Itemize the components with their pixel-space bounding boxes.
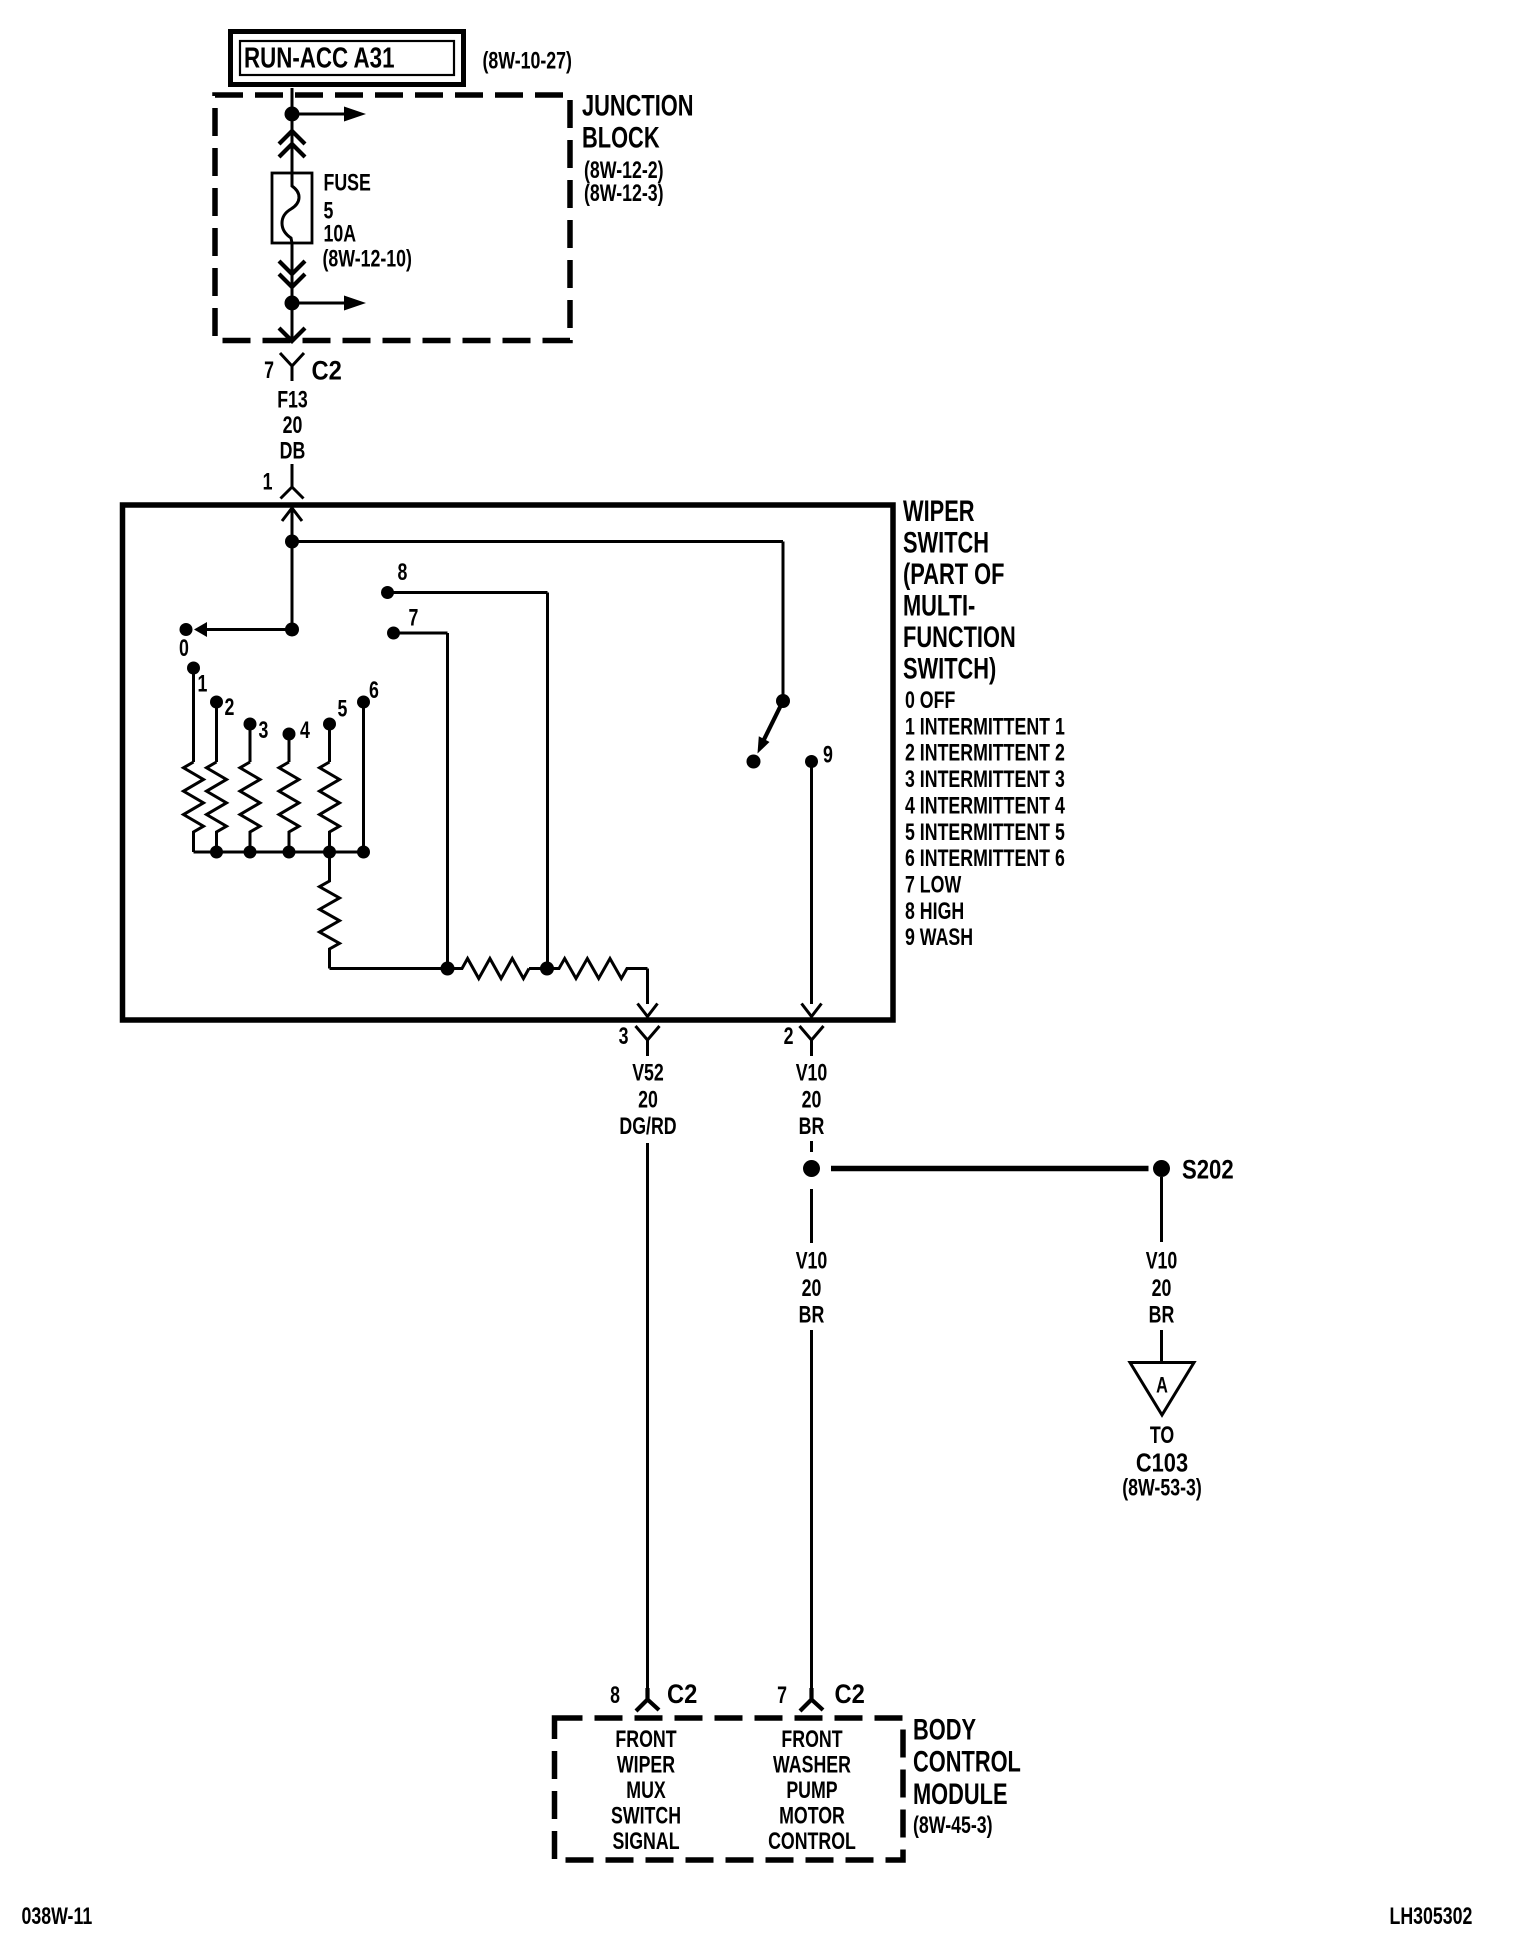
svg-text:(8W-12-3): (8W-12-3) [584, 181, 664, 207]
svg-text:20: 20 [283, 413, 303, 439]
wire R6 to node C [330, 967, 448, 970]
wiper arm arrow pointing left [194, 622, 292, 637]
svg-text:BR: BR [799, 1114, 825, 1140]
branch wire arrow right at J2 [299, 296, 366, 311]
wire to connector A [1160, 1330, 1163, 1363]
contact 9 dot [805, 755, 818, 768]
svg-text:2: 2 [784, 1024, 794, 1050]
contact 4 dot [283, 728, 296, 741]
svg-text:(8W-53-3): (8W-53-3) [1122, 1475, 1202, 1501]
wire V10 short segment [810, 1141, 813, 1152]
svg-text:4 INTERMITTENT 4: 4 INTERMITTENT 4 [905, 793, 1065, 819]
svg-text:(8W-10-27): (8W-10-27) [483, 48, 572, 74]
svg-text:MUX: MUX [626, 1778, 665, 1804]
bus junction dot 6 [357, 846, 370, 859]
wire label F13 20 DB [277, 387, 308, 464]
svg-text:DB: DB [280, 438, 306, 464]
resistor RH2 [529, 959, 648, 979]
svg-text:8: 8 [398, 560, 408, 586]
svg-text:MODULE: MODULE [913, 1779, 1008, 1811]
contact 5 dot [323, 718, 336, 731]
wire label V10 20 BR (right) [1146, 1248, 1178, 1328]
svg-text:20: 20 [802, 1276, 822, 1302]
wire label V10 20 BR (left lower) [796, 1248, 828, 1328]
bus junction dot 5 [323, 846, 336, 859]
arrowhead down at pin 2 [802, 1004, 822, 1017]
svg-text:TO: TO [1150, 1423, 1174, 1449]
contact 6 dot [357, 696, 370, 709]
junction J2 dot [285, 296, 300, 311]
contact 3 wire [249, 724, 252, 762]
svg-text:0 OFF: 0 OFF [905, 688, 955, 714]
contact 8 dot [381, 586, 394, 599]
node C junction dot [441, 962, 455, 976]
junction dot to switch common [285, 535, 299, 549]
resistor R3 [240, 762, 260, 852]
wire below fuse [291, 243, 294, 340]
svg-text:3: 3 [259, 718, 269, 744]
svg-text:5 INTERMITTENT 5: 5 INTERMITTENT 5 [905, 819, 1065, 845]
svg-text:3 INTERMITTENT 3: 3 INTERMITTENT 3 [905, 767, 1065, 793]
junction block dashed box [215, 95, 570, 341]
wire V10 right branch [1160, 1177, 1163, 1242]
resistor R1 [184, 762, 204, 852]
svg-text:A: A [1156, 1373, 1168, 1398]
svg-text:SWITCH: SWITCH [903, 527, 989, 559]
svg-text:WASHER: WASHER [773, 1752, 851, 1778]
svg-text:C2: C2 [835, 1680, 865, 1710]
svg-text:1: 1 [263, 469, 273, 495]
svg-text:2 INTERMITTENT 2: 2 INTERMITTENT 2 [905, 740, 1065, 766]
svg-text:3: 3 [619, 1024, 629, 1050]
switch blade with arrow [758, 701, 784, 754]
svg-text:V10: V10 [796, 1060, 828, 1086]
svg-text:(8W-45-3): (8W-45-3) [913, 1813, 993, 1839]
destination label TO C103 (8W-53-3) [1122, 1423, 1202, 1502]
svg-text:V52: V52 [632, 1060, 664, 1086]
svg-text:10A: 10A [324, 221, 357, 247]
wire to pin 3 [646, 969, 649, 1005]
svg-text:(PART OF: (PART OF [903, 559, 1004, 591]
contact 4 wire [288, 734, 291, 762]
svg-text:1 INTERMITTENT 1: 1 INTERMITTENT 1 [905, 714, 1065, 740]
svg-text:FUNCTION: FUNCTION [903, 622, 1016, 654]
connector C2 female symbol [280, 353, 304, 381]
BCM name labels [913, 1714, 1021, 1838]
svg-text:6 INTERMITTENT 6: 6 INTERMITTENT 6 [905, 846, 1065, 872]
contact 1 dot [187, 662, 200, 675]
svg-text:SWITCH): SWITCH) [903, 653, 996, 685]
chevron down at block exit [279, 328, 305, 341]
svg-text:8 HIGH: 8 HIGH [905, 898, 964, 924]
resistor bus bar [194, 851, 364, 854]
splice S202 wire [831, 1166, 1149, 1172]
svg-text:C2: C2 [667, 1680, 697, 1710]
svg-text:SIGNAL: SIGNAL [612, 1829, 679, 1855]
bus junction dot 2 [210, 846, 223, 859]
wire V52 to BCM pin 8 [646, 1143, 649, 1691]
wiper switch name labels [903, 496, 1016, 685]
svg-text:FUSE: FUSE [324, 170, 371, 196]
svg-text:7: 7 [264, 358, 274, 384]
svg-text:DG/RD: DG/RD [619, 1114, 676, 1140]
contact 5 wire [328, 724, 331, 762]
svg-text:4: 4 [300, 718, 310, 744]
wire from contact 9 to pin 2 [810, 762, 813, 1005]
svg-text:CONTROL: CONTROL [768, 1829, 856, 1855]
svg-text:(8W-12-10): (8W-12-10) [323, 246, 412, 272]
splice S202 dot [1153, 1160, 1170, 1177]
off-page connector A triangle [1130, 1363, 1194, 1416]
resistor R5 [320, 762, 340, 852]
svg-text:BR: BR [799, 1302, 825, 1328]
pin 2 female connector symbol [800, 1026, 824, 1056]
bus junction dot 4 [283, 846, 296, 859]
svg-text:CONTROL: CONTROL [913, 1746, 1021, 1778]
svg-text:038W-11: 038W-11 [22, 1904, 93, 1930]
svg-text:2: 2 [225, 695, 235, 721]
svg-text:RUN-ACC A31: RUN-ACC A31 [244, 43, 395, 74]
splice S202 junction dot [803, 1160, 820, 1177]
svg-text:MOTOR: MOTOR [779, 1803, 845, 1829]
junction J1 dot [285, 107, 300, 122]
wiper switch box [123, 505, 894, 1020]
fuse value labels [323, 170, 412, 272]
BCM circuit label front washer pump motor control [768, 1727, 856, 1855]
body control module dashed box [555, 1718, 904, 1860]
svg-text:FRONT: FRONT [615, 1727, 676, 1753]
svg-text:20: 20 [802, 1087, 822, 1113]
wire V10 below splice (left) [810, 1189, 813, 1243]
wire label V52 20 DG/RD [619, 1060, 676, 1140]
fuse 5 10A [272, 173, 312, 243]
svg-text:0: 0 [179, 636, 189, 662]
resistor R6 [320, 852, 340, 969]
switch throw contact dot [747, 755, 761, 769]
BCM pin 8 male connector symbol [636, 1688, 659, 1711]
pin 3 female connector symbol [636, 1026, 660, 1056]
wire A31 feed (vertical, upper) [291, 88, 294, 173]
entry arrowhead up at pin 1 [282, 508, 302, 521]
junction block name labels [582, 90, 694, 206]
wiper arm junction dot [285, 623, 299, 637]
BCM pin 7 male connector symbol [800, 1688, 823, 1711]
contact 7 wire [394, 633, 448, 969]
svg-text:1: 1 [198, 671, 208, 697]
svg-text:5: 5 [338, 696, 348, 722]
svg-text:V10: V10 [796, 1248, 828, 1274]
svg-text:7: 7 [409, 605, 419, 631]
wire to switch pivot [292, 542, 783, 696]
wire label V10 20 BR (upper) [796, 1060, 828, 1140]
contact 7 dot [387, 627, 400, 640]
svg-text:F13: F13 [277, 387, 308, 413]
resistor R4 [279, 762, 299, 852]
contact 3 dot [244, 718, 257, 731]
pin 1 male connector symbol [281, 464, 304, 499]
OFF contact 0 dot [180, 623, 193, 636]
connector chevrons (double, pointing down) [279, 261, 305, 287]
svg-text:SWITCH: SWITCH [611, 1803, 681, 1829]
svg-text:LH305302: LH305302 [1390, 1904, 1473, 1930]
BCM circuit label front wiper mux switch signal [611, 1727, 681, 1855]
svg-text:MULTI-: MULTI- [903, 590, 975, 622]
svg-text:BLOCK: BLOCK [582, 122, 660, 154]
svg-text:WIPER: WIPER [617, 1752, 675, 1778]
contact 1 wire [192, 668, 195, 762]
node D junction dot [540, 962, 554, 976]
svg-text:S202: S202 [1182, 1156, 1234, 1186]
contact 2 dot [210, 696, 223, 709]
fuse-block feed box RUN-ACC A31 [231, 32, 464, 85]
wire trunk inside switch [291, 508, 294, 630]
contact 8 wire [388, 593, 548, 969]
contact 6 wire [362, 702, 365, 852]
svg-text:20: 20 [1152, 1276, 1172, 1302]
resistor R2 [207, 762, 227, 852]
resistor RH1 [448, 959, 530, 979]
bus junction dot 3 [244, 846, 257, 859]
svg-text:PUMP: PUMP [786, 1778, 837, 1804]
svg-text:7 LOW: 7 LOW [905, 872, 961, 898]
svg-text:JUNCTION: JUNCTION [582, 90, 694, 122]
svg-text:C2: C2 [312, 356, 342, 386]
arrowhead down at pin 3 [638, 1004, 658, 1017]
svg-text:6: 6 [369, 678, 379, 704]
branch wire arrow right at J1 [299, 107, 366, 122]
svg-text:WIPER: WIPER [903, 496, 975, 528]
wire V10 to BCM pin 7 [810, 1330, 813, 1691]
svg-text:BR: BR [1149, 1302, 1175, 1328]
svg-text:9 WASH: 9 WASH [905, 925, 973, 951]
switch pivot dot [776, 694, 790, 708]
svg-text:BODY: BODY [913, 1714, 976, 1746]
svg-text:C103: C103 [1136, 1449, 1188, 1478]
connector chevrons (double, pointing up) [279, 131, 305, 157]
svg-text:V10: V10 [1146, 1248, 1178, 1274]
svg-text:8: 8 [610, 1683, 620, 1709]
contact 2 wire [215, 702, 218, 762]
switch position list [905, 688, 1065, 951]
svg-text:FRONT: FRONT [781, 1727, 842, 1753]
svg-text:7: 7 [777, 1683, 787, 1709]
svg-text:20: 20 [638, 1087, 658, 1113]
svg-text:9: 9 [823, 742, 833, 768]
